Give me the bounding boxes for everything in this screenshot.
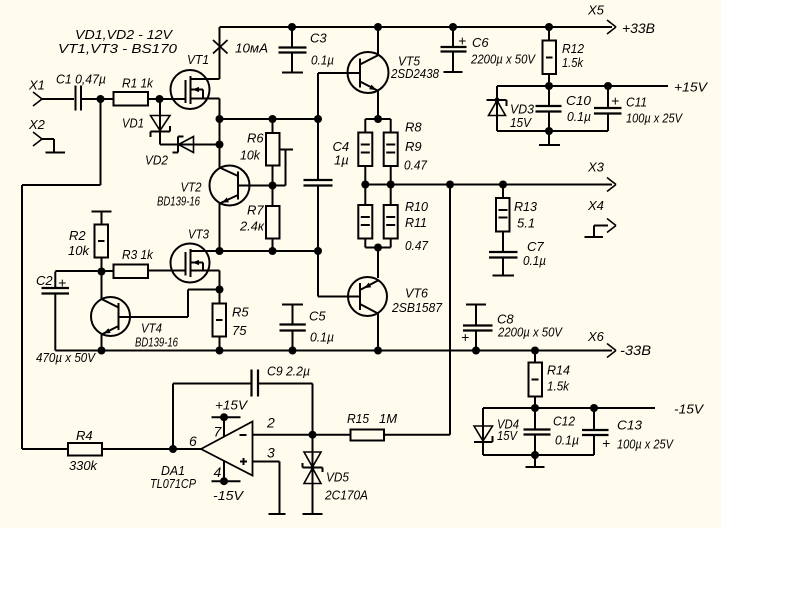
svg-text:2SD2438: 2SD2438 [390,66,440,81]
svg-text:C1 0,47µ: C1 0,47µ [56,72,106,87]
svg-text:0.47: 0.47 [404,158,428,173]
resistor R2 [68,212,108,272]
svg-text:X5: X5 [587,3,605,18]
node -33V rail junctions [98,347,106,355]
svg-text:R10: R10 [405,199,429,214]
node driver rail junctions [216,247,224,255]
node R10-R11 junction [374,244,382,252]
op-amp DA1 [150,422,253,492]
svg-text:VT1: VT1 [187,52,209,67]
ground C5 [282,304,303,306]
svg-text:15V: 15V [510,115,532,130]
svg-text:C11: C11 [626,95,647,110]
svg-text:R2: R2 [69,228,86,243]
capacitor C2 [36,273,96,365]
node +15V return junction [545,127,553,135]
connector X3 [587,160,616,192]
svg-text:0.1µ: 0.1µ [555,433,579,448]
svg-text:C9 2.2µ: C9 2.2µ [267,364,310,379]
resistor R12 [543,27,585,86]
svg-text:+15V: +15V [215,398,248,413]
wire C1 to input node [82,98,114,100]
wire VT3 source down [219,271,221,290]
resistor R1 [114,76,155,106]
node opamp output junction [169,445,177,453]
node output rail junctions [361,181,369,189]
svg-text:C3: C3 [310,31,327,46]
resistor R13 [496,185,538,252]
resistor R7 [239,186,279,252]
pin 2 inverting input [253,415,313,435]
wire C2 top [54,272,56,288]
svg-text:VD1,VD2 - 12V: VD1,VD2 - 12V [75,27,173,42]
wire VD1 to VD2 [160,144,178,146]
svg-text:+: + [58,275,66,291]
svg-text:75: 75 [232,323,247,338]
svg-text:7: 7 [214,424,223,440]
resistor R8 [358,120,422,185]
resistor R6 [240,119,280,186]
wire VT1 source down [219,99,221,120]
ground C7 [493,275,515,277]
connector X1 [28,78,45,107]
svg-text:1µ: 1µ [334,153,349,168]
wire VT4 emitter [101,335,103,351]
node bias rail junctions [216,115,224,123]
wire VD2 to VT1 source net [178,144,220,146]
svg-text:C7: C7 [527,239,544,254]
svg-text:2C170A: 2C170A [324,488,368,503]
svg-text:R6: R6 [247,131,264,146]
ground +15V regulator [548,131,550,145]
svg-text:R9: R9 [405,139,422,154]
node VT5 emitter junction [374,115,382,123]
current test point X mark [213,40,268,56]
node +33V rail junctions [288,23,296,31]
wire input node to feedback [100,99,102,185]
capacitor C13 [582,408,674,455]
transistor VT2 [157,166,250,209]
node VT3 source junction [216,286,224,294]
svg-text:R7: R7 [247,203,264,218]
svg-text:2200µ x 50V: 2200µ x 50V [497,325,563,340]
capacitor C4 [304,139,350,186]
svg-text:C12: C12 [553,414,576,429]
svg-text:0.47: 0.47 [405,238,429,253]
wire +15V common return [497,130,608,132]
capacitor C1 [56,72,106,111]
wire -15V common return [535,454,594,456]
svg-text:10k: 10k [68,243,90,258]
node -15V return junction [531,451,539,459]
wire C9 left [172,384,174,450]
connector X5 [587,3,616,35]
svg-text:1M: 1M [379,411,397,426]
resistor R3 [114,247,155,278]
connector X6 [587,329,616,358]
svg-text:15V: 15V [497,428,518,443]
svg-text:2SB1587: 2SB1587 [391,300,443,315]
resistor R14 [529,351,571,409]
svg-text:X2: X2 [28,117,46,132]
svg-text:0.1µ: 0.1µ [310,330,334,345]
ground C6 [444,71,463,73]
wire VT1 drain up [219,27,221,79]
diode VD2 [145,137,194,168]
resistor R4 [68,428,102,473]
svg-text:10мА: 10мА [235,41,268,56]
ground C3 [282,72,303,74]
svg-text:C2: C2 [36,273,53,288]
svg-text:R15: R15 [347,411,370,426]
wire R6 tap [280,149,294,151]
svg-text:R1 1k: R1 1k [122,76,154,91]
svg-text:6: 6 [189,433,197,449]
diode VD1 [122,116,170,138]
svg-text:C10: C10 [566,93,592,108]
capacitor C8 [461,305,563,351]
svg-text:R13: R13 [514,199,538,214]
svg-text:0.1µ: 0.1µ [311,53,334,68]
svg-text:100µ x 25V: 100µ x 25V [617,437,674,452]
wire VT5 base [318,72,360,74]
wire +15V rail [497,85,668,87]
pin 3 non-inverting input [253,445,280,514]
svg-text:VT3: VT3 [188,227,210,242]
wire VD4 bottom [482,442,484,455]
svg-text:C6: C6 [472,35,489,50]
capacitor C11 [594,86,683,131]
connector X2 [28,117,46,146]
wire C4 bottom [317,187,319,252]
wire C2 bottom [54,295,56,351]
wire C9 right [259,383,313,385]
svg-text:C5: C5 [309,309,326,324]
svg-text:+: + [458,33,466,49]
svg-text:VD5: VD5 [326,470,350,485]
svg-text:+33B: +33B [622,21,655,36]
svg-text:C13: C13 [617,418,643,433]
node +15V junctions [545,82,553,90]
svg-text:0.1µ: 0.1µ [567,109,591,124]
wire gate node to VT1 gate [160,98,186,100]
wire VT4 base [119,316,189,318]
wire R8-R9 top bar [365,118,390,120]
capacitor C10 [536,86,592,131]
connector X4 [587,198,616,237]
wire output rail [364,184,612,186]
wire VT4 collector [101,272,103,300]
ground -15V regulator [534,455,536,467]
wire VT6 base [317,251,319,297]
svg-text:-15V: -15V [213,488,244,503]
svg-text:VD2: VD2 [145,153,169,168]
svg-text:R5: R5 [232,305,249,320]
svg-text:X6: X6 [587,329,605,344]
ground R2 [92,211,112,213]
transistor VT6 [348,277,443,316]
wire gate node to VD1 [159,99,161,145]
ground X2 [46,152,66,154]
wire VT6 emitter [377,248,379,279]
capacitor C6 [441,27,537,72]
ground pin 3 [269,513,286,515]
resistor R11 [384,185,429,254]
svg-text:0.1µ: 0.1µ [523,253,546,268]
svg-text:5.1: 5.1 [517,216,535,231]
resistor R10 [358,185,428,239]
svg-text:R3 1k: R3 1k [122,247,154,262]
svg-text:R12: R12 [562,41,585,56]
wire R4 to opamp output [102,448,201,450]
wire VD3 top [496,86,498,100]
svg-text:+: + [611,93,619,109]
svg-text:R4: R4 [76,428,93,443]
svg-text:R14: R14 [547,363,570,378]
svg-text:10k: 10k [240,148,261,163]
svg-text:4: 4 [214,464,222,480]
transistor VT3 [171,227,220,283]
wire R1 to gate node [148,98,160,100]
ground X4 [585,236,604,238]
wire VT5 emitter [377,91,379,119]
svg-text:BD139-16: BD139-16 [157,194,201,209]
svg-text:X4: X4 [587,198,604,213]
wire +33V rail [220,26,613,28]
svg-text:+: + [461,329,469,345]
svg-text:VD1: VD1 [122,116,144,131]
svg-text:R8: R8 [405,120,422,135]
svg-text:VT2: VT2 [181,180,203,195]
svg-text:X1: X1 [28,78,45,93]
wire VT3 gate [148,270,186,272]
svg-text:2200µ x 50V: 2200µ x 50V [470,52,536,67]
wire X1 to C1 [41,98,74,100]
transistor VT4 [91,297,179,350]
wire VT2 emitter [219,204,221,252]
diode VD4 zener [474,408,519,443]
svg-text:-33B: -33B [620,343,651,358]
wire inverting node to R15 [313,434,351,436]
node gate junction [156,95,164,103]
capacitor C5 [280,305,335,351]
pin 4 -15V supply [212,462,245,504]
wire -15V rail [483,407,655,409]
pin 7 +15V supply [212,398,249,440]
diode VD3 zener [487,98,535,132]
node R2-R3 junction [98,268,106,276]
capacitor C7 [489,239,546,275]
node input junction [97,95,105,103]
svg-text:VT1,VT3 - BS170: VT1,VT3 - BS170 [58,41,178,56]
svg-text:X3: X3 [587,160,605,175]
node inverting input junction [309,431,317,439]
svg-text:1.5k: 1.5k [562,55,584,70]
svg-text:2: 2 [266,415,275,431]
svg-text:330k: 330k [69,458,98,473]
resistor R15 [347,411,397,441]
svg-text:+15V: +15V [674,80,708,95]
wire bias rail [220,118,319,120]
svg-text:+: + [602,435,610,451]
capacitor C3 [279,27,335,72]
diode VD5 suppressor [303,452,369,514]
svg-text:-15V: -15V [674,402,704,417]
wire VT2 collector [219,119,221,168]
svg-text:VT6: VT6 [405,286,429,301]
wire R10-R11 bottom bar [364,239,366,248]
node -15V junctions [531,404,539,412]
svg-text:R11: R11 [405,215,427,230]
capacitor C9 [252,364,311,397]
svg-text:100µ x 25V: 100µ x 25V [626,111,683,126]
svg-text:VT4: VT4 [141,321,162,336]
svg-text:2.4к: 2.4к [239,219,265,234]
wire VT5 collector [377,27,379,55]
svg-text:470µ x 50V: 470µ x 50V [36,350,96,365]
transistor VT5 [348,52,440,93]
ground C8 [466,304,486,306]
svg-text:BD139-16: BD139-16 [135,335,179,350]
resistor R9 [384,133,428,185]
wire R2 node to R3 [102,270,114,272]
ground VD5 [303,513,323,515]
resistor R5 [213,290,250,351]
wire R15 to output [384,434,450,436]
transistor VT1 [171,52,220,109]
wire VT6 collector [377,314,379,351]
wire C4 top [317,119,319,179]
svg-text:1.5k: 1.5k [547,379,570,394]
wire X2 to ground [41,138,54,140]
node VD2 junction [216,141,224,149]
svg-text:3: 3 [267,445,275,461]
wire -33V rail [102,350,613,352]
node R6-R7 junction [269,182,277,190]
wire VD5 top [312,435,314,468]
capacitor C12 [524,408,580,455]
wire VT2 base [238,185,273,187]
svg-text:TL071CP: TL071CP [150,476,196,491]
wire driver rail [191,250,319,252]
